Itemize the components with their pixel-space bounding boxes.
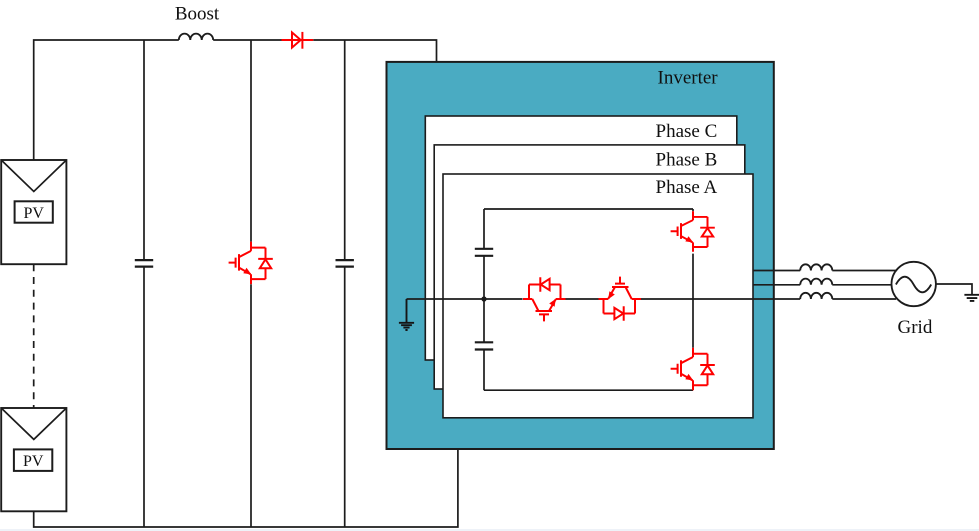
transistor Q2 (bidirectional switch, diode up) — [523, 277, 566, 321]
svg-text:PV: PV — [23, 453, 44, 470]
ground (inverter neutral) — [399, 299, 414, 330]
capacitor C1 branch wires — [143, 40, 145, 527]
capacitor C2 plates — [336, 260, 354, 267]
wire phase A midpoint bus — [407, 298, 897, 300]
inductor L2 (phase B filter) — [800, 279, 832, 285]
svg-text:Phase A: Phase A — [656, 177, 718, 198]
svg-text:Inverter: Inverter — [658, 68, 719, 89]
svg-text:PV: PV — [23, 205, 44, 222]
capacitor C3 plates (phase A upper) — [475, 249, 493, 256]
transistor Q1 (boost IGBT with diode) — [229, 242, 273, 285]
Phase C box — [425, 116, 737, 360]
ac source Grid — [892, 262, 936, 306]
capacitor C2 branch wires — [344, 40, 346, 527]
wire phase C output — [753, 270, 896, 272]
svg-text:Phase C: Phase C — [656, 121, 718, 142]
transistor Q5 (phase A lower IGBT) — [671, 348, 715, 391]
wire bottom bus — [34, 449, 458, 527]
Phase B box — [434, 145, 745, 389]
Phase A box — [443, 174, 753, 418]
wire boost switch branch — [250, 40, 252, 527]
node A (dc-link midpoint junction) — [481, 296, 486, 301]
inductor L3 (phase A filter) — [800, 293, 832, 299]
wire phase A dc-link loop — [484, 209, 693, 390]
transistor Q4 (phase A upper IGBT) — [671, 211, 715, 252]
capacitor C1 plates — [135, 260, 153, 267]
PV module PV2 — [1, 408, 66, 511]
wire top bus from PV1 to inverter drop — [34, 40, 437, 160]
page edge strip — [0, 529, 979, 531]
capacitor C4 plates (phase A lower) — [475, 342, 493, 349]
wire grid to earth — [936, 284, 972, 295]
PV module PV1 — [1, 160, 66, 264]
svg-text:Phase B: Phase B — [656, 149, 718, 170]
svg-text:Grid: Grid — [898, 317, 933, 338]
diode D1 (boost diode, red) — [282, 32, 314, 49]
ground (grid earth) — [964, 295, 979, 301]
inverter block (teal) — [387, 62, 774, 449]
inductor Boost — [179, 34, 213, 40]
svg-text:Boost: Boost — [175, 4, 220, 25]
wire phase B output — [753, 284, 892, 286]
inductor L1 (phase C filter) — [800, 264, 832, 270]
transistor Q3 (bidirectional switch, diode down) — [599, 277, 642, 321]
wire dashed link PV1-PV2 — [33, 264, 35, 408]
